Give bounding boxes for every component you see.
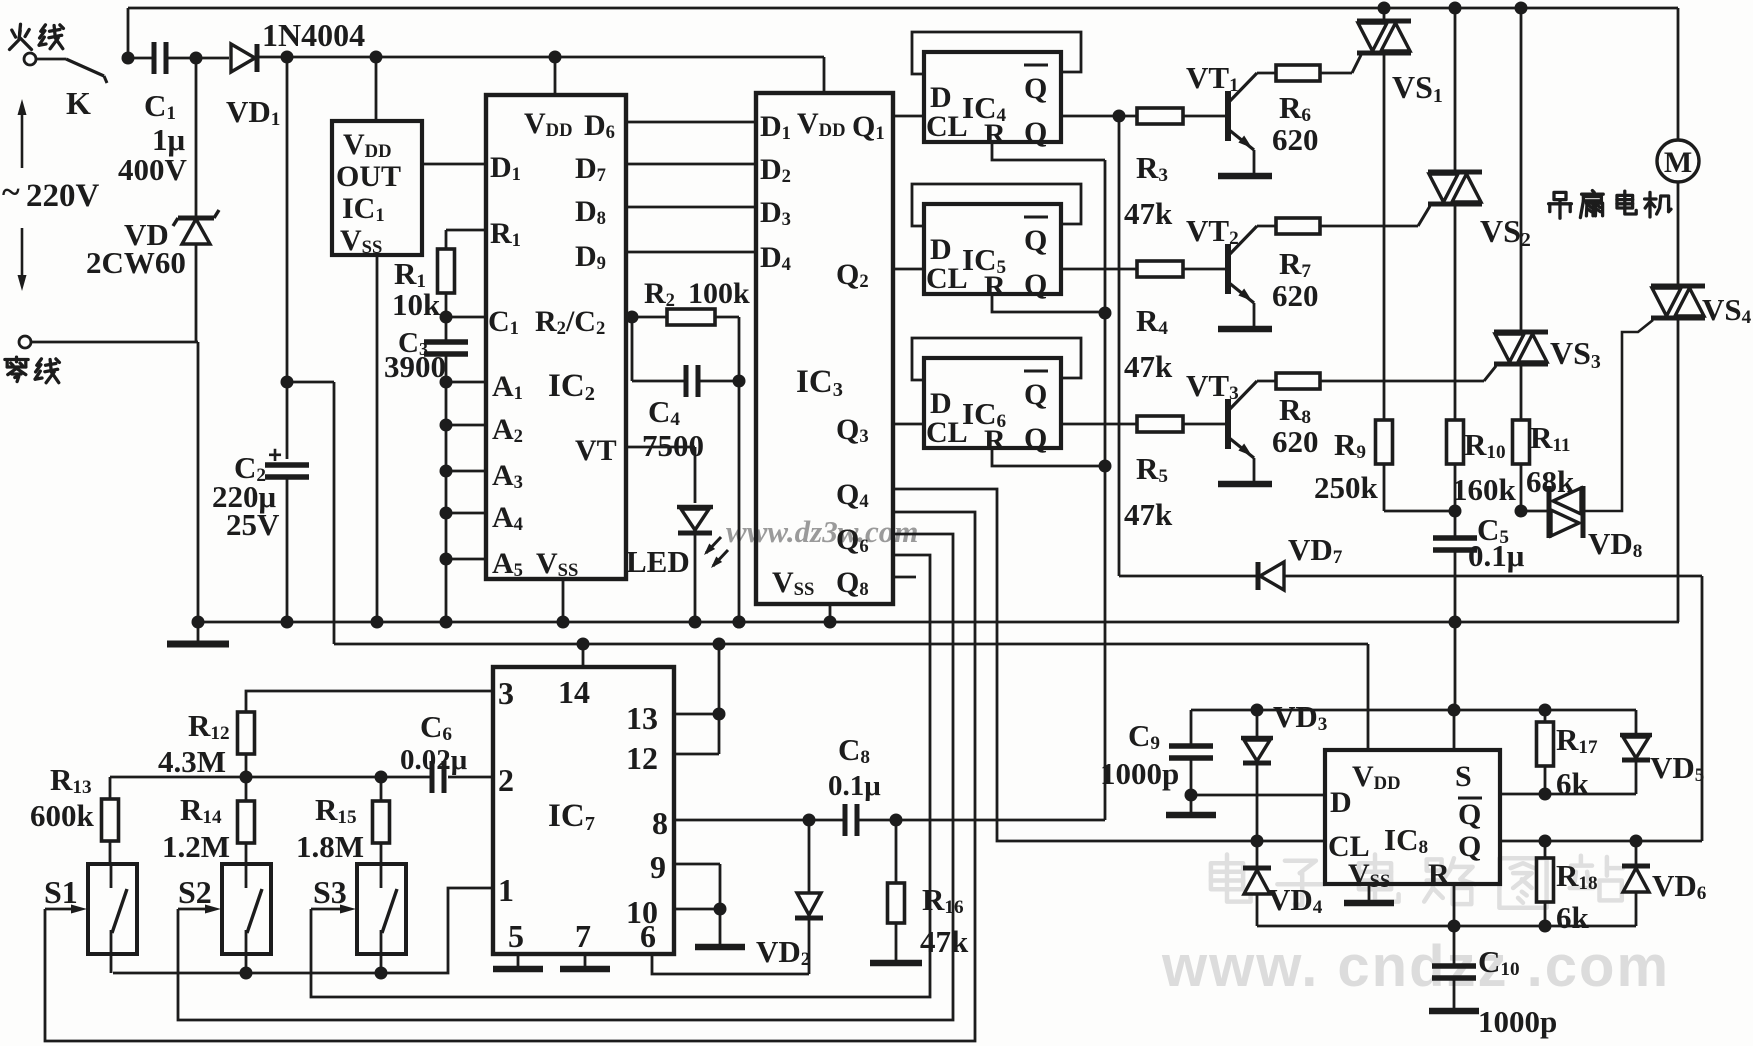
flip-flop IC8 — [1325, 750, 1500, 884]
svg-text:7: 7 — [575, 918, 591, 954]
svg-text:3: 3 — [498, 675, 514, 711]
svg-text:R: R — [984, 118, 1006, 151]
switch S1 — [88, 864, 137, 954]
wire pin13 junction — [674, 713, 719, 716]
wire C1 to VD1 — [167, 57, 229, 60]
transistor VT1 — [1225, 91, 1231, 141]
wire VT2 collector to R7 — [1257, 225, 1276, 228]
svg-text:13: 13 — [626, 700, 658, 736]
svg-text:Q: Q — [1024, 116, 1047, 149]
wire VDD bus2 — [334, 643, 1368, 646]
wire supply to IC3 VDD — [823, 57, 826, 93]
wire IC4 Q to R3 — [1061, 115, 1138, 118]
ground symbol mains — [197, 622, 200, 641]
svg-text:6k: 6k — [1556, 766, 1590, 801]
resistor R15 1.8M — [380, 777, 383, 801]
wire R pin to C10 — [1453, 884, 1456, 926]
svg-text:6k: 6k — [1556, 900, 1590, 935]
ground pin9/10 — [695, 944, 745, 951]
resistor R9 250k — [1376, 420, 1393, 464]
svg-text:1000p: 1000p — [1100, 756, 1179, 791]
resistor R11 68k — [1513, 420, 1530, 464]
junction CL net — [1251, 835, 1264, 848]
svg-text:2CW60: 2CW60 — [86, 245, 186, 280]
junction R net IC6 — [1099, 460, 1112, 473]
svg-text:9: 9 — [650, 849, 666, 885]
node huoxian (live wire) label — [18, 24, 22, 33]
svg-text:47k: 47k — [920, 924, 969, 959]
svg-text:0.02μ: 0.02μ — [400, 744, 468, 776]
wire R12 to pin2 net — [245, 754, 248, 777]
wire pin8 net — [674, 819, 843, 822]
resistor R1 10k — [438, 249, 455, 293]
wire pin2 net — [448, 776, 493, 779]
arrow down 220V — [21, 228, 24, 286]
svg-text:47k: 47k — [1124, 196, 1173, 231]
capacitor C4 7500 — [631, 317, 634, 381]
wire VT pin to LED — [626, 446, 695, 449]
wire R6 to VS1 gate — [1320, 72, 1352, 75]
capacitor C6 0.02u — [430, 761, 435, 793]
ground VT2 emitter — [1218, 326, 1272, 333]
wire C3 to A pins chain — [445, 354, 448, 622]
wire R8 to VS3 gate — [1320, 380, 1484, 383]
capacitor C5 0.1u — [1454, 511, 1457, 536]
arrow up 220V — [21, 104, 24, 168]
svg-text:CL: CL — [926, 416, 968, 449]
svg-text:R: R — [984, 270, 1006, 303]
wire IC5 Q to R4 — [1061, 268, 1138, 271]
wire D pin — [1191, 794, 1325, 797]
wire C5 to S rail — [1454, 622, 1457, 710]
watermark dianzi dianlu tuzhan — [1225, 855, 1230, 891]
svg-text:Q: Q — [1024, 224, 1047, 257]
svg-text:160k: 160k — [1452, 472, 1517, 507]
wire IC5 feedback loop Qbar to D — [912, 184, 1081, 226]
wire S pin stub — [1453, 710, 1456, 750]
svg-text:100k: 100k — [688, 277, 750, 310]
arrow S2 — [178, 908, 214, 911]
flip-flop IC5 — [924, 204, 1061, 294]
wire R13 to S1 — [109, 841, 112, 864]
wire vdd tap to bus2 — [287, 381, 334, 384]
junction C4 to ground bus — [733, 616, 746, 629]
wire IC4 feedback loop Qbar to D — [912, 32, 1081, 74]
resistor R7 620 — [1276, 218, 1320, 234]
svg-text:www. cndzz .com: www. cndzz .com — [1161, 934, 1670, 999]
wire C2 to ground bus — [286, 477, 289, 622]
wire R1 to C1 pin — [445, 293, 448, 317]
resistor R8 620 — [1276, 373, 1320, 389]
wire pin9 pin10 ground — [674, 863, 720, 866]
wire top rail — [127, 8, 130, 58]
ground C9 — [1190, 795, 1193, 812]
wire VD1 node down to C2 — [286, 57, 289, 459]
resistor R17 6k — [1544, 710, 1547, 722]
wire neutral to ground bus — [31, 341, 198, 344]
wire R2 to C4 junction — [715, 316, 739, 319]
wire IC2 R1 pin — [446, 229, 486, 232]
ground VT1 emitter — [1218, 173, 1272, 180]
svg-text:K: K — [66, 85, 91, 121]
diac VD8 — [1547, 486, 1552, 538]
diode VD6 — [1635, 841, 1638, 866]
svg-text:620: 620 — [1272, 278, 1319, 313]
transistor VT3 — [1225, 399, 1231, 449]
ground R16 — [870, 960, 922, 967]
junction top rail VS1 — [1378, 2, 1391, 15]
wire IC3 VSS to ground bus — [829, 604, 832, 622]
svg-text:620: 620 — [1272, 424, 1319, 459]
svg-text:8: 8 — [652, 805, 668, 841]
wire IC1 VDD stub — [375, 57, 378, 121]
wire IC2 VSS to ground bus — [562, 579, 565, 622]
wire VS4 gate to diac — [1583, 320, 1653, 511]
wire motor to VS4 — [1677, 182, 1680, 286]
wire D9-D4 — [626, 251, 756, 254]
svg-text:S3: S3 — [313, 874, 347, 910]
svg-text:Q: Q — [1458, 798, 1481, 831]
svg-text:250k: 250k — [1314, 470, 1379, 505]
wire R11 bottom — [1520, 464, 1523, 511]
wire IC6 Q to R5 — [1061, 423, 1138, 426]
transistor VT2 — [1225, 244, 1231, 294]
resistor R2 100k — [667, 309, 715, 325]
switch K — [36, 58, 66, 61]
wire VT3 collector to R8 — [1257, 380, 1276, 383]
wire switch common to pin1 — [113, 888, 493, 973]
svg-text:1000p: 1000p — [1478, 1004, 1557, 1039]
svg-text:1.2M: 1.2M — [162, 829, 230, 864]
svg-text:10k: 10k — [392, 287, 441, 322]
wire IC4 R pin — [992, 142, 1105, 160]
wire D8-D3 — [626, 206, 756, 209]
wire VS4 to ground bus — [1677, 318, 1680, 622]
wire R10 bottom — [1454, 464, 1457, 511]
wire pin3 to R12 — [246, 691, 493, 712]
wire VDD bus to IC8 VDD pin — [1367, 644, 1370, 750]
wire S rail — [1191, 709, 1636, 712]
resistor R16 47k — [895, 820, 898, 883]
svg-text:M: M — [1664, 146, 1692, 179]
wire pin14 to VDD bus — [582, 644, 585, 667]
wire IC6 feedback loop Qbar to D — [912, 338, 1081, 380]
wire pin6 to VD2 — [652, 954, 809, 974]
capacitor C2 220u 25V — [265, 462, 309, 468]
wire R2/C2 pin — [626, 316, 668, 319]
resistor R3 47k — [1137, 108, 1183, 124]
svg-text:620: 620 — [1272, 122, 1319, 157]
svg-text:OUT: OUT — [336, 160, 401, 193]
wire VT1 collector to R6 — [1257, 72, 1276, 75]
wire Q5 to S1 line — [45, 512, 975, 1041]
arrow S1 — [45, 908, 80, 911]
junction A3 — [440, 465, 453, 478]
arrow S3 — [311, 908, 349, 911]
junction A1 — [440, 376, 453, 389]
wire Q net — [1500, 840, 1702, 843]
LED — [677, 505, 713, 510]
svg-text:25V: 25V — [226, 507, 280, 542]
junction C2 vdd tap — [281, 376, 294, 389]
flip-flop IC4 — [924, 52, 1061, 142]
wire R13 top — [109, 777, 112, 799]
junction A2 — [440, 419, 453, 432]
wire R3 to VT1 base — [1183, 115, 1228, 118]
wire pin12 junction — [674, 753, 719, 756]
wire VS3 to R11 — [1520, 364, 1523, 421]
wire R7 to VS2 gate — [1320, 225, 1418, 228]
wire IC1 VSS to ground bus — [376, 255, 379, 622]
triac VS1 — [1383, 8, 1386, 21]
svg-text:Q: Q — [1024, 72, 1047, 105]
svg-text:Q: Q — [1024, 268, 1047, 301]
svg-text:Q: Q — [1024, 378, 1047, 411]
diode VD2 — [808, 820, 811, 893]
ground VT3 emitter — [1218, 481, 1272, 488]
terminal live — [24, 53, 36, 65]
wire pin8 net right to flipflop R net — [859, 819, 1105, 822]
wire D6-D1 — [626, 121, 756, 124]
svg-text:14: 14 — [558, 674, 590, 710]
flip-flop IC6 — [924, 358, 1061, 448]
resistor R18 6k — [1544, 841, 1547, 858]
svg-text:5: 5 — [508, 918, 524, 954]
wire R5 to VT3 base — [1183, 423, 1228, 426]
diode VD4 — [1256, 841, 1259, 868]
svg-text:R2/C2: R2/C2 — [535, 305, 605, 339]
capacitor C9 1000p — [1190, 710, 1193, 744]
timer IC7 — [493, 667, 674, 954]
wire D7-D2 — [626, 163, 756, 166]
svg-text:4.3M: 4.3M — [158, 744, 226, 779]
svg-text:~: ~ — [2, 174, 20, 211]
triac VS4 — [1651, 284, 1705, 289]
svg-text:Q: Q — [1458, 830, 1481, 863]
junction A4 — [440, 507, 453, 520]
diode VD5 — [1635, 710, 1638, 734]
wire Q1 node down to VD7 — [1118, 116, 1121, 576]
svg-text:1.8M: 1.8M — [296, 829, 364, 864]
wire Qbar net — [1500, 793, 1636, 796]
svg-text:0.1μ: 0.1μ — [828, 770, 881, 802]
wire VD7 to IC8 Q net — [1284, 575, 1702, 578]
capacitor C8 0.1u — [843, 804, 848, 836]
wire R4 to VT2 base — [1183, 268, 1228, 271]
wire R9 bottom — [1383, 464, 1386, 511]
svg-text:R: R — [1428, 858, 1450, 891]
svg-text:CL: CL — [926, 110, 968, 143]
diode VD7 — [1256, 562, 1261, 590]
resistor R5 47k — [1137, 416, 1183, 432]
diode VD3 — [1256, 710, 1259, 737]
regulator IC1 — [332, 121, 422, 255]
resistor R12 4.3M — [238, 712, 255, 754]
resistor R6 620 — [1276, 65, 1320, 81]
wire flip-flop R net vertical — [1104, 160, 1107, 820]
triac VS3 — [1520, 8, 1523, 332]
junction R net IC5 — [1099, 307, 1112, 320]
junction top rail VS3 — [1515, 2, 1528, 15]
svg-text:600k: 600k — [30, 798, 95, 833]
svg-text:1: 1 — [498, 872, 514, 908]
node lingxian (neutral) label — [5, 358, 28, 361]
label diaoshan dianji (ceiling fan motor) — [1554, 192, 1566, 199]
svg-text:3900: 3900 — [384, 349, 446, 384]
resistor R4 47k — [1137, 261, 1183, 277]
resistor R14 1.2M — [245, 777, 248, 801]
capacitor C10 1000p — [1453, 926, 1456, 966]
resistor R10 160k — [1447, 420, 1464, 464]
ground IC8 VSS — [1368, 884, 1371, 900]
svg-text:S: S — [1455, 760, 1472, 793]
counter IC2 — [486, 95, 626, 579]
svg-text:220V: 220V — [26, 178, 100, 214]
svg-text:400V: 400V — [118, 152, 188, 187]
svg-text:S1: S1 — [44, 874, 78, 910]
svg-text:CL: CL — [926, 262, 968, 295]
svg-text:12: 12 — [626, 740, 658, 776]
wire Q1 to IC4 CL — [893, 115, 924, 118]
resistor R13 600k — [102, 799, 119, 841]
junction A5 — [440, 553, 453, 566]
svg-text:LED: LED — [626, 544, 690, 579]
wire Q3 to IC6 CL — [893, 423, 924, 426]
svg-text:1N4004: 1N4004 — [262, 17, 365, 53]
driver IC3 — [756, 93, 893, 604]
ground pin5 — [517, 954, 520, 966]
svg-text:S2: S2 — [178, 874, 212, 910]
junction top rail VS2 — [1449, 2, 1462, 15]
switch S3 — [357, 864, 406, 954]
wire VS1 to R9 — [1383, 53, 1386, 421]
svg-text:6: 6 — [640, 918, 656, 954]
switch S2 — [222, 864, 271, 954]
wire IC8 bottom rail — [1257, 925, 1636, 928]
wire live to C1 — [122, 52, 135, 65]
wire IC1 OUT to IC2 D1 — [422, 163, 486, 166]
wire Q4 to IC8 CL — [893, 489, 1325, 841]
wire IC2 VDD stub — [554, 57, 557, 95]
zener diode VD 2CW60 — [195, 58, 198, 216]
capacitor C1 — [152, 42, 157, 74]
svg-text:VT: VT — [575, 434, 617, 467]
capacitor C3 3900 — [445, 317, 448, 342]
wire Q8 stub — [893, 576, 916, 579]
svg-text:47k: 47k — [1124, 349, 1173, 384]
svg-text:2: 2 — [498, 762, 514, 798]
svg-text:R: R — [984, 424, 1006, 457]
wire IC5 R pin — [992, 294, 1105, 312]
ground C10 — [1429, 1008, 1479, 1015]
wire VD1 to IC1/IC2 supply rail — [259, 56, 824, 59]
svg-text:Q: Q — [1024, 422, 1047, 455]
wire ground bus VSS — [198, 621, 1679, 624]
wire IC6 R pin — [992, 448, 1105, 466]
terminal neutral — [19, 336, 31, 348]
ground pin7 — [584, 954, 587, 966]
svg-text:47k: 47k — [1124, 497, 1173, 532]
wire Q7 to S3 line — [311, 555, 930, 997]
wire Q2 to IC5 CL — [893, 268, 924, 271]
wire Q6 to S2 line — [178, 534, 953, 1020]
wire VS2 to R10 — [1454, 204, 1457, 421]
wire pin2 net left — [110, 776, 430, 779]
motor M ceiling fan — [1677, 8, 1680, 140]
diode VD1 1N4004 — [231, 44, 255, 72]
svg-text:D: D — [1330, 786, 1352, 819]
triac VS2 — [1454, 8, 1457, 172]
svg-text:+: + — [268, 442, 282, 469]
svg-text:0.1μ: 0.1μ — [1468, 538, 1525, 573]
